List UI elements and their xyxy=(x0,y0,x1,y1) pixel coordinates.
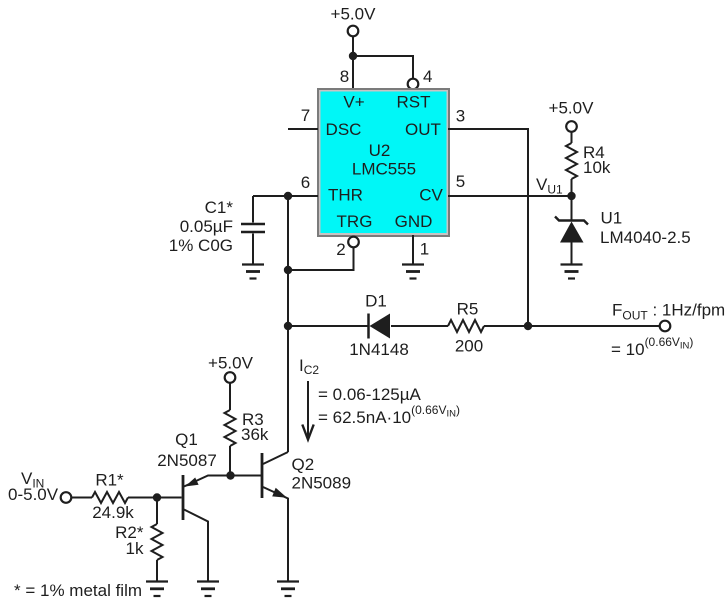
pin 2 TRG open circle xyxy=(348,237,359,248)
svg-text:3: 3 xyxy=(456,107,465,126)
wire R1 to Q1 base xyxy=(128,497,182,499)
ground (U1) xyxy=(561,265,583,279)
svg-text:OUT: OUT xyxy=(405,120,441,139)
svg-text:0.05µF: 0.05µF xyxy=(180,217,233,236)
node supply junction xyxy=(349,52,357,60)
wire R3 to base node xyxy=(229,446,231,476)
wire +5V down to pin 8 xyxy=(352,36,354,88)
terminal FOUT open circle xyxy=(660,321,671,332)
svg-text:1: 1 xyxy=(420,240,429,259)
IC U2 LMC555 body xyxy=(317,88,450,237)
pin 4 open circle xyxy=(408,79,419,90)
svg-text:C1*: C1* xyxy=(205,198,234,217)
diode D1 1N4148 xyxy=(349,292,409,360)
svg-text:1N4148: 1N4148 xyxy=(349,340,409,359)
svg-text:R1*: R1* xyxy=(95,471,124,490)
pin 7 stub (DSC) xyxy=(288,128,318,130)
wire pin 3 OUT to D1 row xyxy=(448,129,528,326)
resistor R2 xyxy=(115,498,162,582)
wire D1 to R5 xyxy=(391,325,448,327)
wire base row to Q2 xyxy=(230,475,261,477)
wire VIN to R1 xyxy=(72,497,93,499)
node D1-row left junction xyxy=(284,322,292,330)
svg-text:5: 5 xyxy=(456,172,465,191)
node CV / VU1 junction xyxy=(567,192,575,200)
svg-text:LM4040-2.5: LM4040-2.5 xyxy=(600,228,691,247)
svg-text:7: 7 xyxy=(301,106,310,125)
wire pin 1 GND xyxy=(412,235,414,265)
resistor R5 xyxy=(448,320,484,332)
svg-text:0-5.0V: 0-5.0V xyxy=(8,485,59,504)
ground (C1) xyxy=(242,265,264,279)
ground (pin 1) xyxy=(402,265,424,279)
svg-text:U1: U1 xyxy=(601,209,623,228)
svg-text:Q2: Q2 xyxy=(292,455,315,474)
wire D1 row left xyxy=(288,325,368,327)
wire to R3 xyxy=(229,383,231,411)
svg-text:1% C0G: 1% C0G xyxy=(169,236,233,255)
resistor R4 xyxy=(566,143,577,179)
svg-text:4: 4 xyxy=(423,67,432,86)
svg-text:6: 6 xyxy=(301,173,310,192)
wire R4 to VU1 node xyxy=(571,179,573,220)
node R1/R2 junction xyxy=(153,493,161,501)
node TRG junction xyxy=(284,266,292,274)
resistor R1 xyxy=(92,492,128,503)
svg-text:RST: RST xyxy=(397,93,431,112)
svg-text:10k: 10k xyxy=(583,158,611,177)
svg-text:U2: U2 xyxy=(369,141,391,160)
svg-text:8: 8 xyxy=(340,67,349,86)
svg-text:DSC: DSC xyxy=(326,120,362,139)
svg-text:TRG: TRG xyxy=(337,212,373,231)
svg-text:GND: GND xyxy=(395,212,433,231)
resistor R3 xyxy=(225,410,236,446)
svg-text:= 0.06-125µA: = 0.06-125µA xyxy=(318,385,422,404)
svg-text:LMC555: LMC555 xyxy=(352,160,416,179)
wire TRG to main vertical xyxy=(288,248,354,271)
zener diode U1 LM4040-2.5 xyxy=(555,209,691,265)
node OUT junction xyxy=(524,322,532,330)
svg-text:200: 200 xyxy=(455,337,483,356)
svg-text:24.9k: 24.9k xyxy=(92,503,134,522)
wire pin 5 CV xyxy=(448,195,572,197)
svg-text:CV: CV xyxy=(419,186,443,205)
node base row junction xyxy=(226,471,234,479)
supply terminal +5.0V (top, IC) xyxy=(331,5,377,37)
svg-text:D1: D1 xyxy=(365,292,387,311)
supply terminal +5.0V (R3) xyxy=(208,354,254,383)
wire pin 6 THR xyxy=(253,195,318,197)
transistor Q2 2N5089 xyxy=(262,452,351,582)
supply terminal +5.0V (right, R4) xyxy=(549,99,595,132)
svg-text:+5.0V: +5.0V xyxy=(331,5,377,24)
ground (R2) xyxy=(146,582,168,597)
wire main vertical node line xyxy=(287,196,289,452)
svg-text:R5: R5 xyxy=(457,300,479,319)
input terminal VIN xyxy=(8,469,71,504)
capacitor C1 xyxy=(169,196,265,265)
svg-text:THR: THR xyxy=(328,186,363,205)
svg-text:Q1: Q1 xyxy=(175,430,198,449)
wire R5 to FOUT xyxy=(484,325,660,327)
svg-text:+5.0V: +5.0V xyxy=(549,99,595,118)
node THR junction xyxy=(284,192,292,200)
wire to R4 xyxy=(571,132,573,144)
svg-text:V+: V+ xyxy=(343,93,364,112)
transistor Q1 2N5087 xyxy=(157,430,231,582)
current arrow IC2 xyxy=(299,356,460,440)
wire supply to RST pin 4 xyxy=(353,56,413,79)
svg-text:2: 2 xyxy=(336,240,345,259)
svg-text:* = 1% metal film: * = 1% metal film xyxy=(14,581,142,600)
svg-text:2N5089: 2N5089 xyxy=(292,474,352,493)
ground (Q2) xyxy=(277,582,299,597)
svg-text:1k: 1k xyxy=(126,539,144,558)
svg-text:36k: 36k xyxy=(241,425,269,444)
svg-text:2N5087: 2N5087 xyxy=(157,451,217,470)
svg-text:+5.0V: +5.0V xyxy=(208,354,254,373)
ground (Q1) xyxy=(197,582,219,597)
